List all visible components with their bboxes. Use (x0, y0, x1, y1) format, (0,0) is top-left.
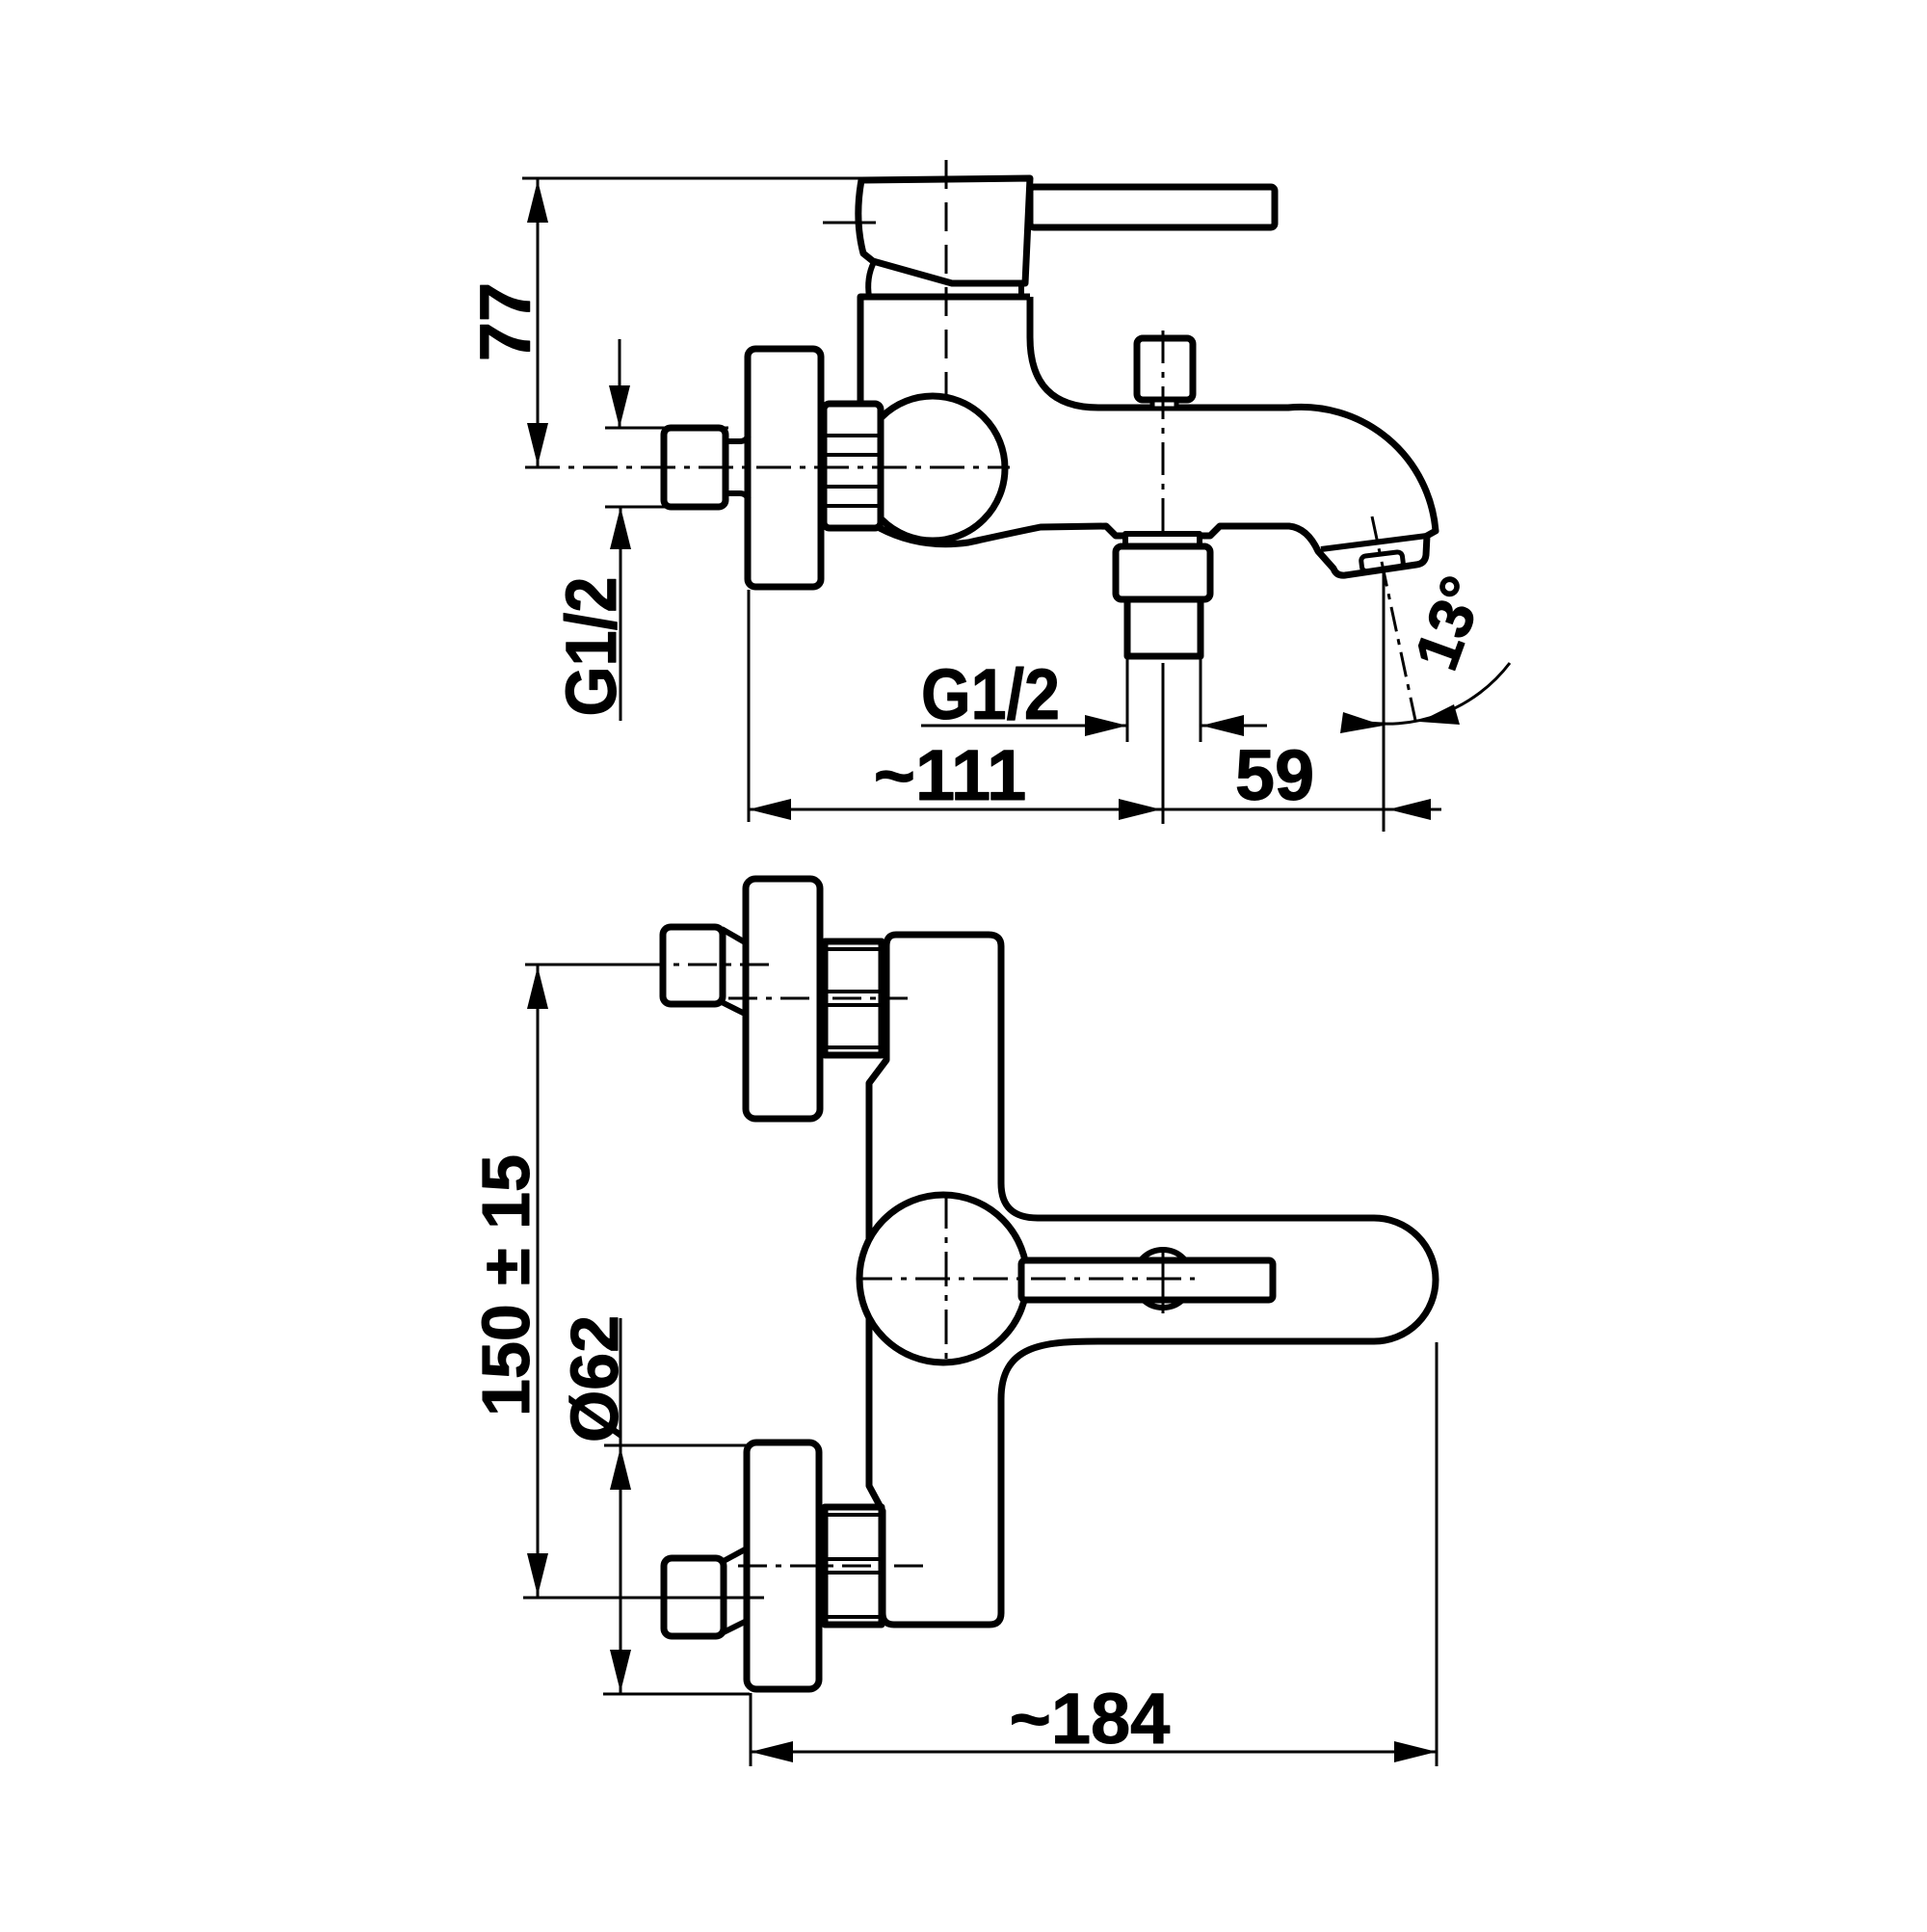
lower eccentric shoulder (724, 1548, 747, 1632)
svg-text:150 ± 15: 150 ± 15 (468, 1154, 543, 1416)
upper eccentric shoulder (722, 929, 747, 1015)
shower outlet pipe G1/2 (1127, 599, 1201, 656)
nut chamfer lines (826, 436, 879, 506)
dimension Ø62 : extension lines (604, 1444, 750, 1447)
svg-text:Ø62: Ø62 (557, 1315, 632, 1442)
supply port thread label G1/2 : upper arrow leader (619, 339, 621, 428)
shower outlet connector (1125, 534, 1200, 546)
upper port centerline (dash-dot) (636, 964, 769, 966)
arrow at spout reference (59) (1388, 799, 1431, 820)
ball joint circle (front view) (859, 1195, 1027, 1363)
dimension line ~111 / 59 (749, 808, 1441, 811)
dimension 77 : arrow down (527, 423, 548, 465)
cap-to-neck step (1018, 284, 1024, 297)
upper wall flange (front view) (746, 879, 820, 1119)
aerator top separation line (1321, 536, 1427, 549)
check valve / shower port centerline (dash-dot) (1162, 331, 1165, 663)
svg-text:~111: ~111 (874, 735, 1027, 815)
svg-text:59: 59 (1235, 735, 1314, 815)
supply port neck (726, 436, 749, 499)
cartridge centerline (dashed vertical) (945, 160, 948, 397)
upper supply port (front view) (663, 927, 723, 1004)
supply port thread label G1/2 : lower arrow leader (620, 507, 622, 721)
ball joint circle (side view) (860, 396, 1005, 541)
upper body inlet centerline (dash-dot) (728, 997, 908, 1000)
lower supply port (front view) (664, 1558, 724, 1636)
supply port extension ticks (605, 427, 728, 430)
upper connection nut (front view) (825, 941, 882, 1055)
lower connection nut (front view) (825, 1507, 882, 1625)
neck dome left arc (868, 262, 874, 297)
dimension 77 : dimension line (537, 178, 540, 467)
svg-text:77: 77 (465, 282, 545, 361)
handle lever bar (1030, 187, 1275, 227)
handle cap centre tick (823, 222, 876, 225)
svg-text:G1/2: G1/2 (551, 577, 631, 717)
svg-text:~184: ~184 (1010, 1679, 1171, 1759)
wall flange (side view) (748, 349, 821, 587)
dimension ~184 : arrows (751, 1741, 793, 1762)
lower wall flange (front view) (747, 1442, 819, 1689)
ball crosshair vertical (dash-dot) (945, 1194, 948, 1364)
water stream axis (dash-dot, 13 deg) (1372, 516, 1417, 729)
handle cap (tilted) (858, 178, 1030, 283)
body slab and handle arm outline (869, 935, 1436, 1625)
dimension 77 : top extension line (522, 177, 861, 180)
dimension 150±15 : arrows (527, 966, 548, 1009)
shower outlet nut (1116, 546, 1210, 599)
shower port width extension lines (1126, 658, 1129, 742)
body neck outline (860, 297, 1030, 405)
shower port extension line (solid) (1162, 663, 1165, 824)
shower port thread label G1/2 : leader line (921, 725, 1127, 728)
arrow at shower port center (right of ~111) (1119, 799, 1161, 820)
check valve knob neck (1152, 400, 1176, 409)
arrow at wall plane (left) (749, 799, 791, 820)
lever (front view) (1021, 1260, 1273, 1300)
angle arrow right (1419, 704, 1460, 725)
main centerline (dash-dot horizontal) (525, 466, 1010, 469)
wall plane extension line (748, 590, 751, 822)
check valve knob (1137, 338, 1193, 400)
angle arc 13 deg (1357, 663, 1510, 724)
spout vertical reference line (1383, 570, 1386, 832)
dimension Ø62 : dimension line (620, 1318, 622, 1694)
dimension ~184 : extension lines (750, 1693, 752, 1766)
lower port centerline (dash-dot) (617, 1597, 771, 1600)
angle arrow left (1340, 712, 1384, 733)
dimension 77 : arrow up (527, 180, 548, 223)
dimension Ø62 : arrows (610, 1447, 631, 1490)
supply port G1/2 (side view) (664, 428, 726, 507)
ball crosshair horizontal (dash-dot) (858, 1278, 1195, 1281)
set screw slot line (1162, 1247, 1165, 1313)
body right side, spout arm and aerator outline (880, 297, 1436, 575)
dimension 150±15 : dimension line (537, 965, 540, 1598)
lower body inlet centerline (dash-dot) (738, 1565, 923, 1568)
lever set screw circle (1134, 1250, 1192, 1308)
svg-text:G1/2: G1/2 (921, 654, 1060, 734)
aerator insert small rectangle (1360, 551, 1404, 571)
shower port thread label: right arrow (1201, 725, 1267, 728)
dimension ~184 : dimension line (751, 1751, 1437, 1754)
connection nut (side view) (824, 404, 881, 528)
dimension 150±15 : extension lines (525, 964, 663, 966)
